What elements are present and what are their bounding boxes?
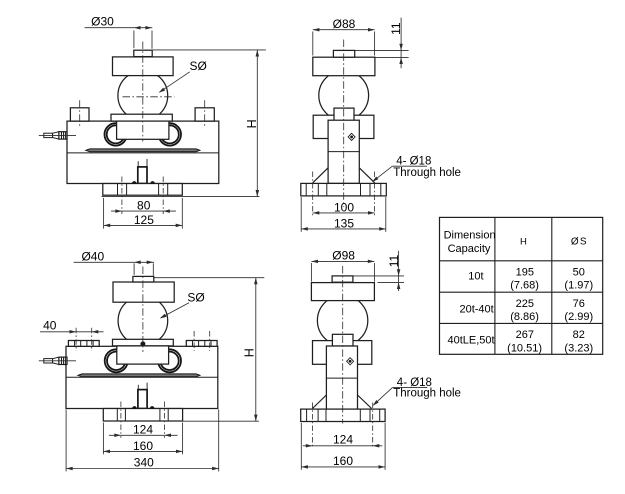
view C cable connector [44,359,53,363]
view C pin riser right [146,383,148,390]
svg-text:225: 225 [516,298,534,310]
view A ball (S diameter) [118,71,168,121]
svg-text:76: 76 [573,298,585,310]
view D diamond marker [347,358,354,365]
view D base flange [301,409,385,421]
svg-text:(10.51): (10.51) [507,342,542,354]
svg-text:Ø30: Ø30 [91,15,114,29]
view C right strip hole centerline 2 [209,331,211,351]
svg-text:124: 124 [133,423,153,437]
view B ball [319,71,369,121]
svg-text:Through hole: Through hole [393,387,461,399]
view A locating pin [138,167,147,184]
view B saddle neck [334,108,354,121]
dimension 80 (view A foot hole spacing) [111,210,176,212]
view C base feet plate [103,409,182,422]
view A body split line [67,152,219,154]
view D top cap [332,276,353,282]
label SØ (view C ball diameter) [161,303,189,318]
view C left foot hole centerline [120,402,122,438]
view C gap lens [78,374,200,377]
view A vertical centerline [142,42,144,142]
dimension 124 (view C foot hole spacing) [109,434,178,436]
svg-text:SØ: SØ [187,290,204,304]
svg-text:10t: 10t [468,270,483,282]
svg-text:4- Ø18: 4- Ø18 [396,156,431,168]
view C pin riser left [137,385,139,390]
view C saddle lip [113,339,174,346]
view A main body [67,121,219,183]
view D left hole centerline [311,403,313,449]
svg-text:160: 160 [333,454,353,468]
view A cable connector [44,133,53,137]
svg-text:50: 50 [573,267,585,279]
view D vertical centerline [342,266,344,424]
svg-text:(2.99): (2.99) [564,311,593,323]
dimension Ø98 (view D plate) [310,263,312,282]
view C body split line [66,376,218,378]
view B saddle wings [313,115,374,138]
view A top plate [113,57,174,76]
dimension H (view A overall height) [152,49,266,51]
dimension 100 (view B hole spacing) [313,212,375,214]
view D top plate [311,283,374,301]
svg-text:80: 80 [137,198,151,212]
view B vertical centerline [343,40,345,208]
view C saddle center dot [141,342,145,346]
svg-text:11: 11 [387,254,401,267]
view D column split line [326,377,357,379]
view A right foot hole centerline [162,177,164,215]
svg-text:135: 135 [334,216,354,230]
view C left O-ring [105,349,128,372]
dimension 40 (view C strip) [40,331,104,333]
view B left gusset [313,168,329,183]
svg-text:(3.23): (3.23) [564,342,593,354]
svg-text:Through hole: Through hole [393,167,461,179]
view B top cap [333,50,354,57]
view A saddle cup [117,121,169,139]
view C vertical centerline [142,267,144,353]
view B right hole centerline [374,172,376,216]
view B column split line [328,151,359,153]
view B base flange [301,183,387,196]
label 4-Ø18 through hole (view B) [392,165,427,167]
view A right weld bump [151,182,155,184]
svg-text:160: 160 [133,439,153,453]
view A left O-ring [105,123,127,145]
view D column body [326,346,357,409]
svg-text:340: 340 [134,456,154,470]
svg-text:Capacity: Capacity [448,243,491,255]
dimension 160 (view C feet width) [102,423,104,455]
svg-text:Ø40: Ø40 [81,249,104,263]
view A pin riser right [146,159,148,167]
view B right gusset [359,168,375,183]
view C right strip hole centerline [193,331,195,351]
svg-text:100: 100 [334,200,354,214]
dimension 340 (view C body width) [65,410,67,472]
svg-text:125: 125 [134,213,154,227]
dimension 125 (view A feet width) [103,198,105,229]
view C top cap [133,276,154,282]
view A right O-ring [159,123,181,145]
view A saddle lip [111,114,172,121]
dimension 124 (view D hole spacing) [303,445,383,447]
view A right block centerline [204,100,206,127]
svg-text:H: H [520,236,527,247]
view C top plate [113,282,174,302]
view B column body [328,120,359,183]
label SØ (view A ball diameter) [160,72,190,92]
svg-text:20t-40t: 20t-40t [459,303,493,315]
view C right serrated strip [186,341,217,347]
view D ball [317,295,367,345]
view A left block centerline [79,100,81,127]
svg-text:SØ: SØ [190,59,207,73]
view C right foot hole centerline [163,402,165,438]
view C right O-ring [158,349,181,372]
view C left serrated strip [68,341,99,347]
dimension Ø30 (view A cap) [133,31,135,49]
svg-text:H: H [245,119,259,128]
view C right weld bump [150,407,154,409]
svg-text:ØS: ØS [571,237,588,248]
svg-text:(8.86): (8.86) [510,311,539,323]
svg-text:H: H [242,348,256,357]
svg-text:267: 267 [516,329,534,341]
svg-text:Ø98: Ø98 [332,249,355,263]
dimension table [440,217,603,354]
svg-text:(7.68): (7.68) [510,280,539,292]
view D right hole centerline [372,403,374,449]
view A left weld bump [132,182,136,184]
view A right mounting block [195,108,214,121]
view C left strip hole centerline 2 [91,328,93,351]
dimension 160 (view D base width) [300,423,302,470]
svg-text:Dimension: Dimension [444,230,496,242]
view B diamond marker [348,133,355,140]
view A base feet plate [103,184,183,196]
view D saddle wings [313,341,372,365]
view A left mounting block [70,108,89,121]
view A pin riser left [137,161,139,167]
label 4-Ø18 through hole (view D) [392,387,427,389]
view A left foot hole centerline [121,177,123,215]
svg-text:195: 195 [516,267,534,279]
view C left strip hole centerline [75,328,77,351]
view D saddle neck [332,334,353,346]
view C main body [66,346,218,408]
svg-text:40tLE,50t: 40tLE,50t [447,334,494,346]
view D right gusset [358,395,372,409]
svg-text:Ø88: Ø88 [333,17,356,31]
view C locating pin [138,390,147,409]
view D left gusset [312,395,326,409]
dimension Ø40 (view C cap) [133,263,135,275]
svg-text:124: 124 [333,432,353,446]
svg-text:82: 82 [573,329,585,341]
view A ball horizontal centerline [123,96,175,98]
view B left hole centerline [312,172,314,216]
view B top plate [313,57,375,75]
dimension 11 (view D cap height) [353,275,404,277]
dimension Ø88 (view B plate) [312,32,314,56]
dimension H (view C overall height) [154,277,264,279]
view C saddle cup [117,346,169,364]
view C left weld bump [133,407,137,409]
view A gap lens [86,149,200,152]
dimension 135 (view B base width) [300,197,302,232]
view A top cap [134,50,152,56]
svg-text:40: 40 [43,319,57,333]
dimension 11 (view B cap height) [355,49,409,51]
view C ball (S diameter) [118,296,168,346]
svg-text:(1.97): (1.97) [564,280,593,292]
svg-text:11: 11 [389,22,403,35]
